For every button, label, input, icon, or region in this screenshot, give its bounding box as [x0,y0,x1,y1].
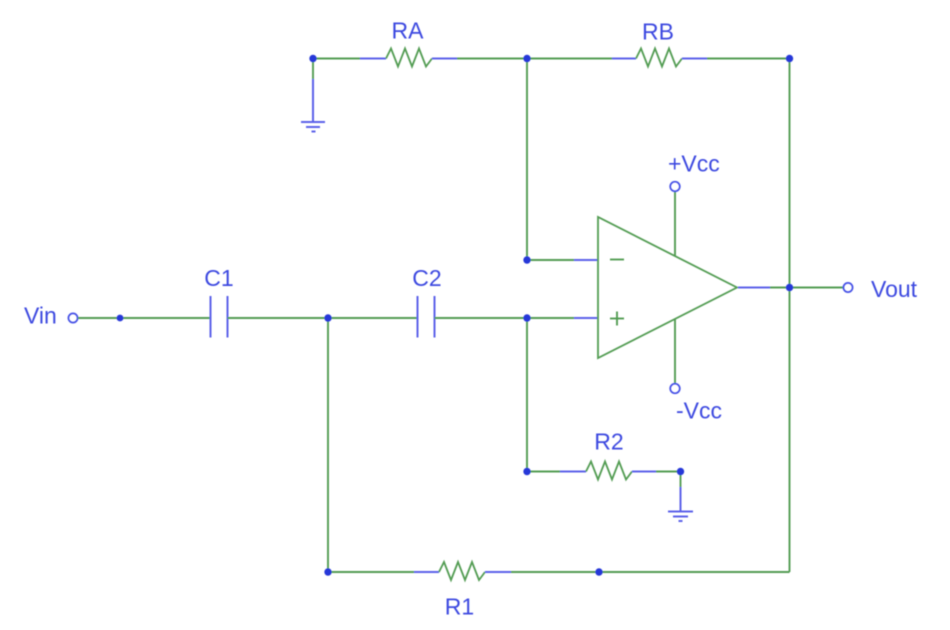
op-amp output stub [738,287,770,289]
wire node B down to inverting input [526,59,528,261]
wire +Vcc supply [674,192,676,256]
wire bottom rail middle [511,571,599,573]
wire top rail RA to node B [457,58,527,60]
junction R2 left [523,468,530,475]
svg-text:+Vcc: +Vcc [668,151,720,177]
wire inverting input horizontal [527,259,574,261]
junction bottom middle [595,568,602,575]
wire top rail RB to node C [707,58,790,60]
ground GND1 [301,79,325,132]
resistor RA [360,49,457,67]
wire C1 to C2 [228,317,418,319]
op-amp minus sign [610,259,624,261]
wire ground stub from node A [312,59,314,80]
wire bottom rail right [599,571,790,573]
junction bottom left [324,568,331,575]
wire -Vcc supply [674,320,676,384]
svg-text:RB: RB [642,19,674,45]
wire top rail node B to RB [527,58,612,60]
svg-text:R1: R1 [445,594,474,620]
svg-text:RA: RA [392,18,425,44]
capacitor C1 [211,296,228,338]
junction inverting node [523,256,530,263]
op-amp U1 triangle [598,217,737,358]
resistor RB [612,49,707,67]
svg-text:-Vcc: -Vcc [676,398,722,424]
wire C2 to non-inverting node [435,317,575,319]
op-amp plus sign [610,312,624,326]
wire top rail left: node A to RA [313,58,360,60]
ground GND2 [668,487,693,521]
wire R2 row left [527,471,560,473]
junction R2 right [677,468,684,475]
svg-text:R2: R2 [594,429,623,455]
wire output stub to node F [770,287,790,289]
svg-text:Vout: Vout [871,276,918,302]
junction node B [523,55,530,62]
wire R2 to ground node [656,471,681,473]
resistor R2 [560,462,656,480]
resistor R1 [414,562,511,580]
terminal Vin [68,313,77,322]
wire output node to Vout terminal [790,287,844,289]
wire node C down to output node and bottom rail [789,59,791,573]
junction node D [324,314,331,321]
wire bottom rail left [328,571,414,573]
wire node D down to bottom rail [327,318,329,572]
op-amp inverting input stub [574,259,598,261]
svg-text:C1: C1 [204,265,233,291]
svg-text:C2: C2 [412,265,441,291]
terminal +Vcc [670,182,680,192]
junction node A [309,55,316,62]
op-amp non-inverting input stub [574,317,598,319]
junction node E [523,314,530,321]
capacitor C2 [418,296,435,338]
wire node E down to R2 [526,318,528,472]
terminal -Vcc [670,384,680,394]
junction Vin wire [117,315,124,322]
wire ground stub [680,472,682,488]
svg-text:Vin: Vin [24,303,57,329]
junction output node F [786,284,793,291]
wire Vin to C1 [78,317,210,319]
terminal Vout [843,283,852,292]
junction node C [786,55,793,62]
